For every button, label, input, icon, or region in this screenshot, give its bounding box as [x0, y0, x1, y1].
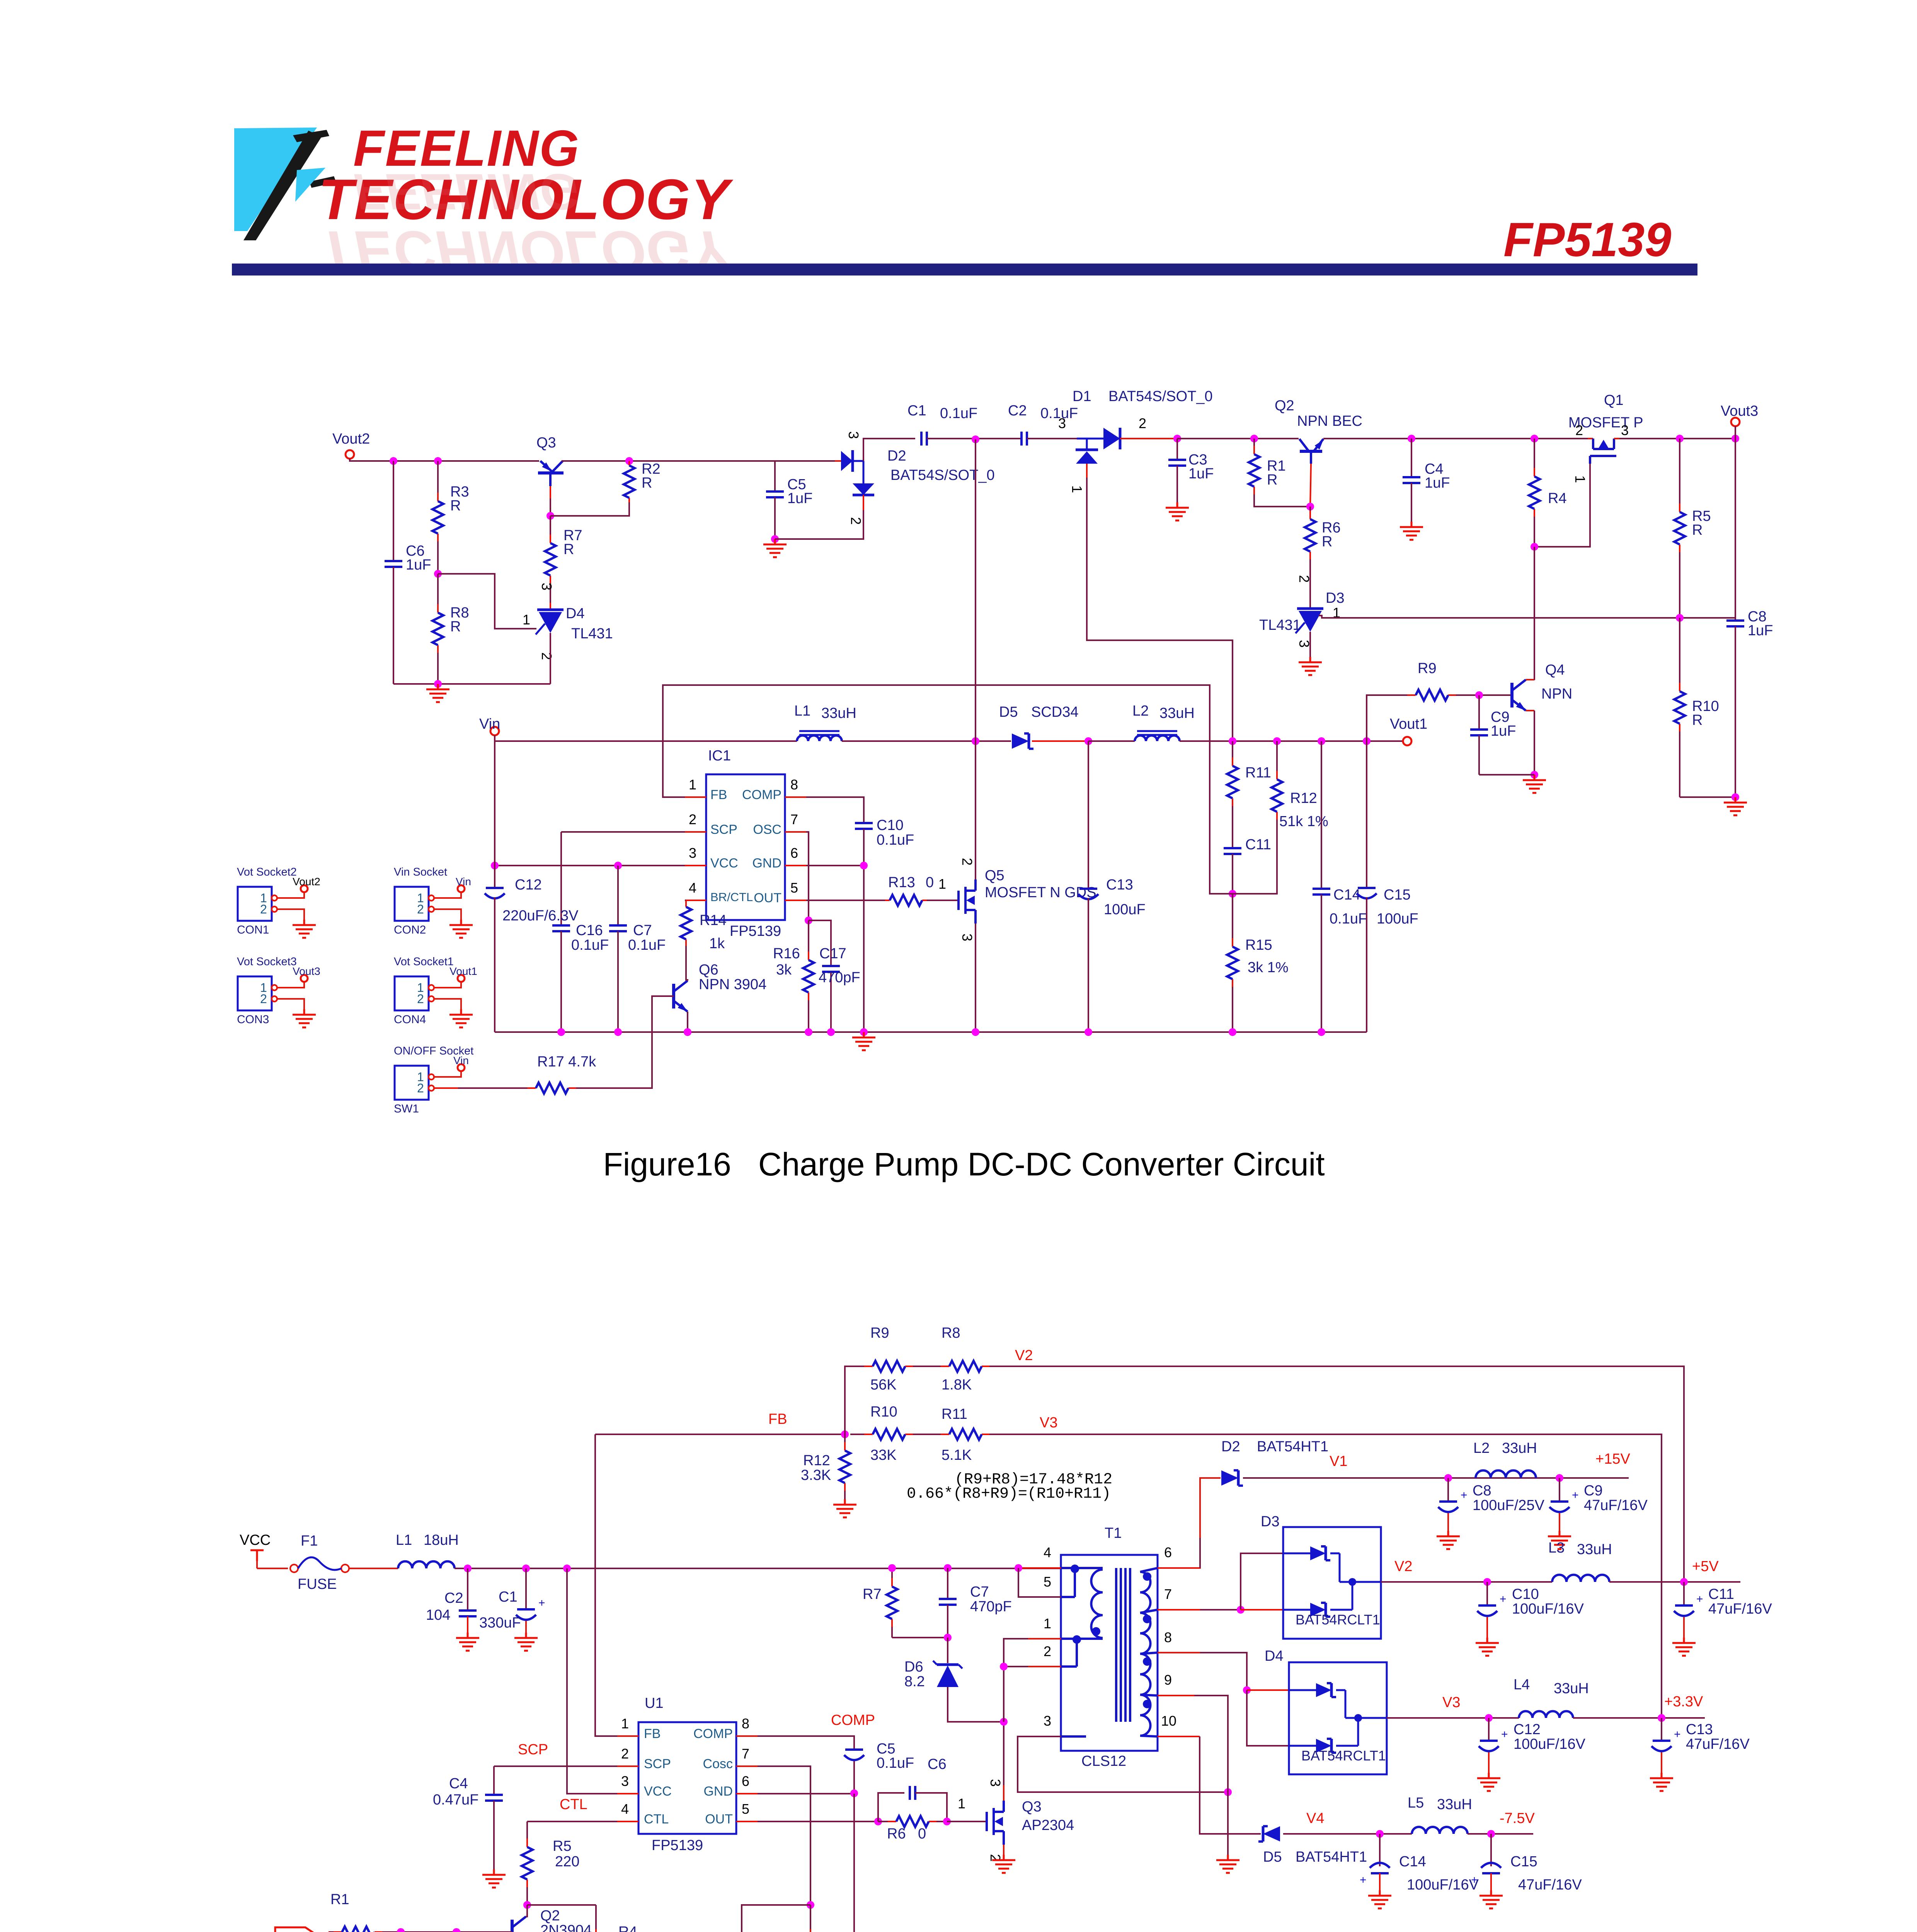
node junction	[805, 917, 812, 924]
ground	[1534, 775, 1536, 780]
svg-text:C7: C7	[633, 922, 652, 939]
resistor R7	[550, 516, 551, 536]
terminal Vin SW1	[458, 1064, 465, 1071]
svg-text:Q6: Q6	[699, 962, 718, 978]
svg-text:4: 4	[1044, 1544, 1051, 1560]
svg-text:R15: R15	[1245, 937, 1272, 953]
wire R10 bottom to ground node	[1680, 796, 1735, 798]
svg-text:3: 3	[846, 431, 861, 439]
ground	[1486, 1638, 1488, 1643]
resistor R10 fig17	[850, 1434, 865, 1435]
connector CON1	[238, 887, 272, 921]
wire Q5 source to ground rail	[975, 923, 976, 1032]
svg-text:COMP: COMP	[693, 1726, 733, 1741]
node junction	[1676, 614, 1684, 622]
svg-text:C6: C6	[928, 1756, 947, 1772]
svg-text:CON4: CON4	[394, 1013, 426, 1026]
resistor R12 fig17	[844, 1434, 846, 1443]
svg-text:V1: V1	[1330, 1453, 1347, 1469]
svg-text:C15: C15	[1384, 887, 1411, 903]
resistor R14	[685, 900, 687, 907]
terminal Vout3	[1731, 418, 1740, 426]
svg-text:C16: C16	[576, 922, 603, 939]
svg-text:1: 1	[1044, 1616, 1051, 1631]
svg-text:CLS12: CLS12	[1081, 1753, 1126, 1769]
node junction	[943, 1818, 951, 1825]
node junction	[1408, 435, 1415, 442]
capacitor C3	[1176, 439, 1178, 460]
svg-text:220uF/6.3V: 220uF/6.3V	[502, 908, 579, 924]
svg-text:6: 6	[790, 845, 798, 861]
svg-text:Vout2: Vout2	[332, 431, 370, 447]
node junction	[1483, 1578, 1491, 1586]
inductor L1 fig16	[797, 736, 842, 742]
capacitor C13 fig17	[1661, 1718, 1662, 1741]
input ON/OFF	[275, 1927, 315, 1932]
wire L5 to -7.5V	[1468, 1833, 1533, 1835]
svg-text:Vot Socket2: Vot Socket2	[237, 866, 297, 878]
connector CON3	[238, 976, 272, 1010]
logo F middle bar	[295, 168, 325, 202]
pin 1 FB	[685, 796, 706, 798]
node junction	[1084, 737, 1092, 745]
svg-text:FB: FB	[710, 787, 727, 802]
svg-text:L1: L1	[396, 1532, 412, 1548]
svg-text:+: +	[1461, 1489, 1468, 1502]
capacitor C4	[1411, 439, 1412, 477]
node junction	[850, 1789, 858, 1797]
svg-text:+: +	[1501, 1728, 1508, 1741]
wire pin4 to R14	[685, 900, 686, 901]
svg-text:FEELING: FEELING	[353, 163, 580, 220]
svg-text:C15: C15	[1510, 1854, 1537, 1870]
svg-text:C13: C13	[1106, 877, 1133, 893]
wire Q6 base from R17	[584, 996, 674, 1088]
wire rail Q2 to Q1	[1323, 438, 1588, 439]
svg-text:0.47uF: 0.47uF	[433, 1792, 478, 1808]
svg-text:1: 1	[958, 1796, 965, 1811]
wire pin2 SCP to C4	[494, 1765, 617, 1767]
resistor R8 fig17	[928, 1366, 941, 1367]
svg-text:47uF/16V: 47uF/16V	[1686, 1736, 1750, 1752]
wire fuse to L1	[349, 1568, 398, 1569]
transformer T1 secondary	[1140, 1572, 1151, 1736]
wire riser to R9	[1367, 695, 1396, 741]
terminal Vout2	[346, 450, 354, 459]
svg-text:R12: R12	[803, 1452, 830, 1469]
wire Vin rail	[495, 735, 797, 741]
svg-text:100uF: 100uF	[1104, 901, 1146, 918]
svg-text:4: 4	[689, 880, 696, 896]
node junction	[1000, 1718, 1008, 1726]
svg-text:Vout2: Vout2	[293, 876, 320, 888]
wire D3 input strap	[1241, 1553, 1283, 1610]
node junction	[390, 457, 397, 465]
ground	[1411, 522, 1413, 527]
wire VCC rail to pin3	[567, 1568, 617, 1794]
capacitor C11 fig16	[1232, 823, 1233, 848]
svg-text:2: 2	[417, 992, 424, 1006]
resistor R3	[437, 461, 439, 493]
svg-text:7: 7	[790, 811, 798, 827]
svg-text:100uF/25V: 100uF/25V	[1473, 1497, 1545, 1514]
pin 6 GND	[736, 1793, 758, 1794]
svg-text:56K: 56K	[870, 1377, 897, 1393]
svg-text:5: 5	[790, 880, 798, 896]
node junction	[1015, 1564, 1022, 1572]
svg-text:L1: L1	[794, 703, 810, 719]
resistor R15 fig16	[1232, 894, 1233, 939]
inductor L2 fig16	[1135, 736, 1180, 742]
pin 1 FB	[617, 1735, 638, 1737]
svg-text:2N3904: 2N3904	[540, 1922, 592, 1932]
svg-text:2: 2	[1575, 422, 1583, 438]
capacitor C15 fig16	[1366, 741, 1367, 888]
resistor R6	[1309, 507, 1311, 512]
svg-text:VCC: VCC	[710, 856, 738, 871]
svg-text:8: 8	[742, 1716, 749, 1731]
svg-text:C1: C1	[499, 1589, 518, 1605]
svg-text:OSC: OSC	[753, 822, 781, 837]
svg-text:220: 220	[555, 1854, 579, 1870]
svg-text:T1: T1	[1105, 1525, 1122, 1541]
capacitor C17 fig16	[809, 920, 831, 966]
svg-text:33uH: 33uH	[821, 705, 856, 721]
node junction	[1485, 1714, 1493, 1722]
svg-text:2: 2	[1044, 1643, 1051, 1659]
svg-text:0.1uF: 0.1uF	[628, 937, 666, 953]
transformer T1 core	[1115, 1568, 1117, 1722]
wire Q3 source to ground	[1003, 1845, 1004, 1855]
svg-text:47uF/16V: 47uF/16V	[1584, 1497, 1648, 1514]
svg-text:33uH: 33uH	[1502, 1440, 1537, 1456]
resistor R5	[1679, 439, 1680, 504]
svg-text:3: 3	[987, 1779, 1003, 1787]
svg-text:+: +	[1360, 1874, 1367, 1886]
svg-text:5: 5	[1044, 1574, 1051, 1590]
svg-text:Q1: Q1	[1604, 392, 1624, 408]
pin 5 OUT	[736, 1821, 758, 1822]
node junction	[972, 737, 979, 745]
svg-text:470pF: 470pF	[970, 1599, 1012, 1615]
svg-text:BAT54S/SOT_0: BAT54S/SOT_0	[1108, 388, 1213, 405]
wire R13 to Q5 gate	[927, 900, 958, 901]
node junction	[1229, 737, 1236, 745]
svg-text:Vin Socket: Vin Socket	[394, 866, 447, 878]
svg-text:BR/CTL: BR/CTL	[710, 890, 753, 904]
svg-text:D3: D3	[1261, 1514, 1280, 1530]
svg-text:L5: L5	[1408, 1795, 1424, 1811]
capacitor C2	[1020, 432, 1023, 446]
svg-text:NPN BEC: NPN BEC	[1297, 413, 1362, 429]
ic IC1 FP5139 box	[706, 774, 785, 920]
connector SW1	[395, 1066, 429, 1100]
svg-text:R: R	[1692, 712, 1702, 728]
node junction	[625, 457, 633, 465]
svg-text:Q3: Q3	[536, 435, 556, 451]
wire T1 pin8 to D4	[1158, 1652, 1200, 1653]
wire R2 to Q3 collector	[550, 502, 629, 516]
wire R6 to TL431 D3	[1309, 564, 1311, 607]
node junction	[1306, 503, 1314, 510]
svg-text:3k: 3k	[776, 962, 792, 978]
capacitor C5	[774, 461, 776, 492]
svg-text:L4: L4	[1514, 1677, 1530, 1693]
wire L1 to D5	[842, 740, 1011, 742]
svg-text:1: 1	[938, 876, 946, 892]
inductor L3 fig17	[1552, 1575, 1609, 1582]
svg-text:GND: GND	[703, 1784, 733, 1799]
svg-text:CON3: CON3	[237, 1013, 269, 1026]
capacitor C9 fig16	[1478, 695, 1480, 730]
wire Q1 gate jog	[1534, 464, 1590, 547]
wire GND column to bottom rail	[853, 1794, 855, 1932]
ground	[1227, 1855, 1229, 1860]
svg-text:+: +	[1471, 1874, 1478, 1886]
ground	[1559, 1531, 1561, 1536]
node junction	[1250, 435, 1258, 442]
resistor R2	[628, 461, 630, 466]
svg-text:COMP: COMP	[742, 787, 781, 802]
pin 4 CTL	[617, 1821, 638, 1822]
svg-text:L3: L3	[1548, 1540, 1565, 1556]
svg-text:SCD34: SCD34	[1031, 704, 1079, 720]
wire R7 C7 bottom join	[892, 1637, 948, 1638]
svg-text:3k 1%: 3k 1%	[1248, 959, 1289, 976]
wire R6 to Q3 gate	[947, 1821, 987, 1822]
svg-text:104: 104	[426, 1607, 450, 1623]
capacitor C10 fig16	[855, 822, 873, 824]
wire to ground fig17 secondary	[1227, 1792, 1229, 1855]
svg-text:TL431: TL431	[1259, 617, 1301, 633]
svg-text:33uH: 33uH	[1554, 1680, 1589, 1697]
svg-text:3: 3	[1044, 1713, 1051, 1729]
svg-text:Q2: Q2	[1275, 398, 1294, 414]
svg-text:R14: R14	[700, 912, 727, 929]
capacitor C8 fig16	[1735, 439, 1736, 621]
connector CON2	[395, 887, 429, 921]
capacitor C16 fig16	[560, 832, 562, 925]
diode D4 TL431	[550, 603, 551, 609]
svg-text:100uF/16V: 100uF/16V	[1407, 1877, 1479, 1893]
capacitor C4 fig17	[493, 1766, 495, 1795]
wire V2 to +5V column	[1003, 1366, 1684, 1582]
svg-text:-7.5V: -7.5V	[1500, 1810, 1535, 1827]
svg-text:R: R	[1322, 534, 1332, 550]
svg-text:C5: C5	[877, 1741, 896, 1757]
logo F shadow	[243, 131, 322, 240]
svg-text:Vout3: Vout3	[293, 965, 320, 977]
svg-text:18uH: 18uH	[424, 1532, 459, 1548]
ground	[1309, 657, 1311, 662]
svg-text:7: 7	[742, 1746, 749, 1762]
wire Q4 emitter to ground node	[1534, 711, 1535, 775]
capacitor C14 fig16	[1321, 741, 1322, 889]
node junction	[807, 1901, 814, 1909]
resistor R17	[520, 1087, 528, 1089]
resistor R4 fig17	[595, 1905, 597, 1930]
capacitor C13 fig16	[1088, 741, 1089, 889]
svg-text:BAT54HT1: BAT54HT1	[1296, 1849, 1367, 1865]
wire T1 pin3 to ground net	[1018, 1736, 1228, 1792]
svg-text:Q5: Q5	[985, 867, 1004, 884]
ground	[1683, 1638, 1685, 1643]
svg-text:1: 1	[621, 1716, 629, 1731]
svg-text:+: +	[1500, 1593, 1507, 1605]
wire T1 pin7 to D3	[1158, 1609, 1200, 1611]
svg-text:470pF: 470pF	[819, 969, 860, 986]
wire L1 to VCC rail	[455, 1568, 1061, 1569]
ic U1 FP5139 box	[638, 1722, 736, 1834]
wire V1 rail	[1243, 1477, 1629, 1479]
svg-text:1uF: 1uF	[1188, 466, 1214, 482]
svg-text:Figure16 Charge Pump DC-DC C: Figure16 Charge Pump DC-DC Converter Cir…	[603, 1146, 1325, 1182]
svg-text:SCP: SCP	[710, 822, 737, 837]
node junction	[860, 862, 868, 869]
svg-text:R7: R7	[863, 1586, 882, 1602]
svg-text:+15V: +15V	[1595, 1451, 1630, 1467]
svg-text:8.2: 8.2	[904, 1673, 925, 1690]
node junction	[841, 1430, 849, 1438]
wire C1C2 node to Q5 drain	[975, 439, 976, 879]
svg-text:3: 3	[1058, 415, 1066, 431]
svg-text:BAT54RCLT1: BAT54RCLT1	[1301, 1748, 1386, 1764]
wire TL431 D3 to ground	[1309, 632, 1311, 657]
svg-text:+3.3V: +3.3V	[1664, 1694, 1703, 1710]
svg-text:100uF/16V: 100uF/16V	[1512, 1601, 1584, 1617]
svg-text:V4: V4	[1306, 1810, 1324, 1827]
svg-text:1: 1	[523, 612, 530, 628]
svg-text:C2: C2	[444, 1590, 463, 1606]
svg-text:R4: R4	[618, 1924, 637, 1932]
svg-text:FP5139: FP5139	[730, 923, 781, 939]
svg-text:D5: D5	[1263, 1849, 1282, 1865]
svg-text:3: 3	[1621, 422, 1629, 438]
wire L3 to +5V	[1609, 1581, 1740, 1583]
svg-text:0.1uF: 0.1uF	[571, 937, 609, 953]
capacitor C12 fig16	[494, 741, 495, 888]
node junction	[523, 1901, 531, 1909]
capacitor C7 fig16	[617, 866, 619, 925]
resistor R7 fig17	[891, 1568, 893, 1579]
ground	[1447, 1531, 1449, 1536]
svg-text:C11: C11	[1245, 837, 1271, 853]
node junction	[1680, 1578, 1688, 1586]
capacitor C6 fig17	[878, 1793, 904, 1821]
wire L4 to +3.3V	[1573, 1717, 1705, 1719]
svg-text:4: 4	[621, 1801, 629, 1817]
node junction	[1531, 543, 1538, 551]
wire Q6 collector	[686, 946, 688, 981]
pin 3 VCC	[617, 1793, 638, 1794]
svg-text:2: 2	[417, 1081, 424, 1095]
svg-text:VCC: VCC	[644, 1784, 672, 1799]
svg-text:1.8K: 1.8K	[941, 1377, 972, 1393]
node junction	[888, 1564, 896, 1572]
inductor L5 fig17	[1412, 1827, 1468, 1834]
logo reflection TECHNOLOGY	[318, 219, 734, 283]
node junction	[1444, 1474, 1452, 1482]
node junction	[1173, 435, 1181, 442]
svg-text:BAT54RCLT1: BAT54RCLT1	[1296, 1612, 1380, 1628]
svg-text:33uH: 33uH	[1159, 705, 1195, 721]
svg-text:BAT54HT1: BAT54HT1	[1257, 1439, 1328, 1455]
svg-text:C1: C1	[907, 403, 926, 419]
svg-text:Q2: Q2	[540, 1908, 560, 1924]
svg-text:R: R	[1692, 522, 1702, 538]
resistor R6 fig17	[878, 1821, 889, 1822]
capacitor C6	[393, 461, 394, 561]
svg-text:C13: C13	[1686, 1721, 1713, 1738]
wire FB column to pin1	[595, 1434, 617, 1736]
svg-text:R11: R11	[941, 1406, 967, 1422]
svg-text:1k: 1k	[709, 935, 725, 952]
svg-text:Cosc: Cosc	[703, 1757, 733, 1771]
svg-text:R: R	[450, 498, 461, 514]
wire Q3 drain up	[1003, 1785, 1004, 1801]
svg-text:2: 2	[621, 1746, 629, 1762]
connector CON4	[395, 976, 429, 1010]
svg-text:0.1uF: 0.1uF	[940, 405, 977, 422]
wire pin5 strap	[1018, 1568, 1061, 1597]
svg-text:Q3: Q3	[1022, 1799, 1042, 1815]
ground	[1488, 1773, 1490, 1778]
wire R1 to Q2 base	[387, 1931, 512, 1932]
pin 3 VCC	[685, 865, 706, 866]
svg-text:R8: R8	[941, 1325, 960, 1341]
svg-text:R6: R6	[887, 1826, 906, 1842]
svg-text:1uF: 1uF	[406, 557, 431, 573]
wire FB to R9 R8 row	[845, 1366, 850, 1434]
node junction	[434, 570, 442, 578]
wire SW1 pin2 to R17	[434, 1087, 458, 1089]
svg-text:33uH: 33uH	[1437, 1796, 1472, 1813]
node junction	[397, 1928, 405, 1932]
wire C2 to D1	[1027, 438, 1077, 439]
node junction	[1658, 1714, 1665, 1722]
svg-text:NPN 3904: NPN 3904	[699, 976, 766, 993]
svg-text:C9: C9	[1584, 1483, 1603, 1499]
node junction	[972, 435, 979, 443]
svg-text:3: 3	[959, 934, 975, 941]
capacitor C8 fig17	[1447, 1478, 1449, 1502]
wire rail to R2	[562, 460, 835, 462]
svg-text:3: 3	[539, 583, 555, 590]
svg-text:5: 5	[742, 1801, 749, 1817]
inductor L1 fig17	[398, 1561, 455, 1568]
wire VCC rail to T1 pin4	[1018, 1567, 1061, 1569]
ground	[1735, 797, 1737, 803]
logo F glyph	[234, 128, 317, 231]
svg-text:CTL: CTL	[644, 1812, 669, 1827]
svg-text:330uF: 330uF	[479, 1615, 521, 1631]
wire TL431 ref rail right	[1319, 616, 1735, 618]
svg-text:1: 1	[1572, 475, 1588, 483]
svg-text:+5V: +5V	[1692, 1558, 1719, 1575]
wire pin5 OUT to R13	[806, 900, 885, 901]
svg-text:FB: FB	[768, 1411, 787, 1427]
svg-text:0.66*(R8+R9)=(R10+R11): 0.66*(R8+R9)=(R10+R11)	[907, 1485, 1111, 1503]
capacitor C5 fig17	[845, 1748, 863, 1751]
pin 8 COMP	[785, 796, 806, 798]
ground	[1176, 502, 1178, 508]
svg-text:FB: FB	[644, 1726, 661, 1741]
svg-text:V3: V3	[1442, 1694, 1460, 1711]
svg-text:6: 6	[1164, 1544, 1172, 1560]
wire D1 pin1 down-across	[1087, 478, 1233, 741]
wire pin5 OUT to R6	[758, 1821, 878, 1822]
svg-text:2: 2	[959, 858, 975, 866]
